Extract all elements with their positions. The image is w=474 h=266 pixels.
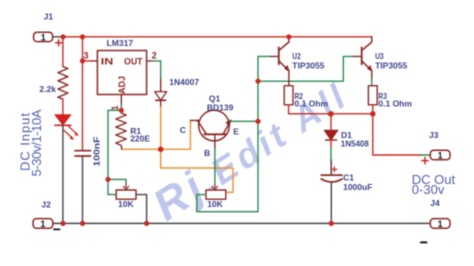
svg-text:2.2k: 2.2k	[39, 84, 56, 94]
svg-text:TIP3055: TIP3055	[375, 61, 407, 71]
junction ADJ pin R1 top	[119, 108, 124, 113]
resistor 2.2k	[58, 67, 68, 100]
wire top rail	[63, 36, 372, 38]
svg-text:0.1 Ohm: 0.1 Ohm	[378, 99, 412, 109]
wire Q1 emitter	[231, 120, 258, 122]
svg-text:J2: J2	[41, 200, 51, 210]
junction D1 anode on output rail	[328, 111, 334, 117]
svg-text:J3: J3	[429, 130, 439, 140]
resistor R3	[368, 86, 412, 109]
capacitor 100nF	[75, 151, 91, 156]
LED indicator	[55, 115, 79, 140]
wire R3 to J3	[373, 105, 421, 155]
svg-text:J1: J1	[44, 12, 54, 22]
wire orange R1 to Q1 collector branch	[122, 120, 191, 149]
wire diode to orange node	[160, 100, 162, 107]
wire input rail down to 100nF	[82, 37, 84, 151]
svg-text:LM317: LM317	[107, 38, 134, 48]
wire LED to ground bus	[62, 125, 64, 223]
wire to IN pin	[83, 60, 93, 62]
junction R3 bottom to J3	[370, 111, 376, 117]
svg-text:1: 1	[438, 151, 443, 161]
transistor U3 TIP3055	[354, 37, 373, 79]
wire R2 bottom rail to R3	[289, 105, 373, 114]
wire Q1 base to right pot wiper	[214, 149, 216, 185]
svg-text:E: E	[233, 127, 239, 137]
resistor R1	[116, 110, 127, 149]
wire C1 to bus	[330, 183, 332, 224]
wire U2 base	[258, 55, 271, 57]
connector J4	[421, 198, 450, 243]
svg-text:220E: 220E	[130, 134, 150, 144]
connector J1	[34, 12, 63, 43]
junction U2 collector on rail	[286, 34, 291, 39]
junction LED branch on ground bus	[60, 221, 65, 226]
svg-text:5-30v/1-10A: 5-30v/1-10A	[29, 109, 44, 176]
svg-text:2: 2	[152, 51, 157, 61]
svg-text:1: 1	[438, 219, 443, 229]
regulator U1 LM317	[84, 38, 157, 110]
svg-text:U2: U2	[292, 51, 301, 61]
wire U3 base	[343, 56, 353, 81]
wire ADJ pin lead	[120, 95, 122, 105]
junction ADJ net left pot	[105, 177, 110, 182]
transistor U2 TIP3055	[271, 37, 290, 86]
svg-text:1: 1	[41, 32, 46, 42]
junction input rail to IN/100nF branch	[80, 34, 85, 39]
junction J1 input rail	[60, 34, 65, 39]
svg-text:0.1 Ohm: 0.1 Ohm	[295, 99, 329, 109]
svg-text:J4: J4	[430, 198, 440, 208]
wire ground bus	[53, 222, 431, 224]
wire ADJ green net to pot	[108, 110, 121, 179]
diode 1N4007	[155, 92, 167, 101]
wire OUT pin	[147, 60, 153, 62]
svg-text:1N4007: 1N4007	[169, 77, 199, 87]
wire left pot to bus	[136, 195, 147, 224]
svg-text:B: B	[204, 148, 210, 158]
svg-text:TIP3055: TIP3055	[292, 61, 324, 71]
wire 2.2k top lead	[62, 37, 64, 67]
svg-text:1N5408: 1N5408	[341, 138, 369, 148]
svg-text:10K: 10K	[207, 199, 223, 209]
diode D1 1N5408	[324, 114, 369, 175]
svg-text:100nF: 100nF	[92, 137, 102, 167]
resistor R2	[284, 86, 328, 109]
svg-text:U3: U3	[375, 51, 384, 61]
junction Q1 emitter net	[255, 119, 260, 124]
junction U2 base rail	[255, 79, 260, 84]
svg-text:C: C	[180, 125, 186, 135]
wire 100nF to bus	[82, 156, 84, 223]
wire green emitter net long vertical	[197, 56, 258, 211]
J1 plus mark	[56, 40, 62, 46]
svg-text:BD139: BD139	[207, 102, 234, 112]
potentiometer left 10K	[116, 185, 136, 209]
potentiometer right 10K	[206, 185, 226, 209]
junction C1 on ground bus	[329, 221, 334, 226]
svg-text:10K: 10K	[118, 199, 134, 209]
junction left pot on ground bus	[144, 221, 149, 226]
wire orange net	[161, 107, 233, 192]
wire 2.2k to LED	[62, 99, 64, 115]
watermark	[145, 69, 357, 230]
junction 100nF branch on ground bus	[80, 221, 85, 226]
junction IN pin branch	[80, 58, 85, 63]
transistor Q1 BD139	[180, 93, 240, 158]
svg-text:IN: IN	[101, 57, 114, 67]
svg-text:OUT: OUT	[124, 57, 143, 67]
connector J2	[33, 200, 60, 230]
svg-text:0-30v: 0-30v	[412, 182, 445, 197]
svg-text:1: 1	[40, 219, 45, 229]
wire green base rail U2-U3	[258, 80, 343, 82]
connector J3	[422, 130, 450, 164]
junction orange node R1/1N4007/Q1-C/pot	[158, 147, 164, 153]
capacitor C1 1000uF	[321, 167, 372, 192]
svg-text:1000uF: 1000uF	[343, 182, 372, 192]
svg-text:ADJ: ADJ	[117, 76, 127, 94]
